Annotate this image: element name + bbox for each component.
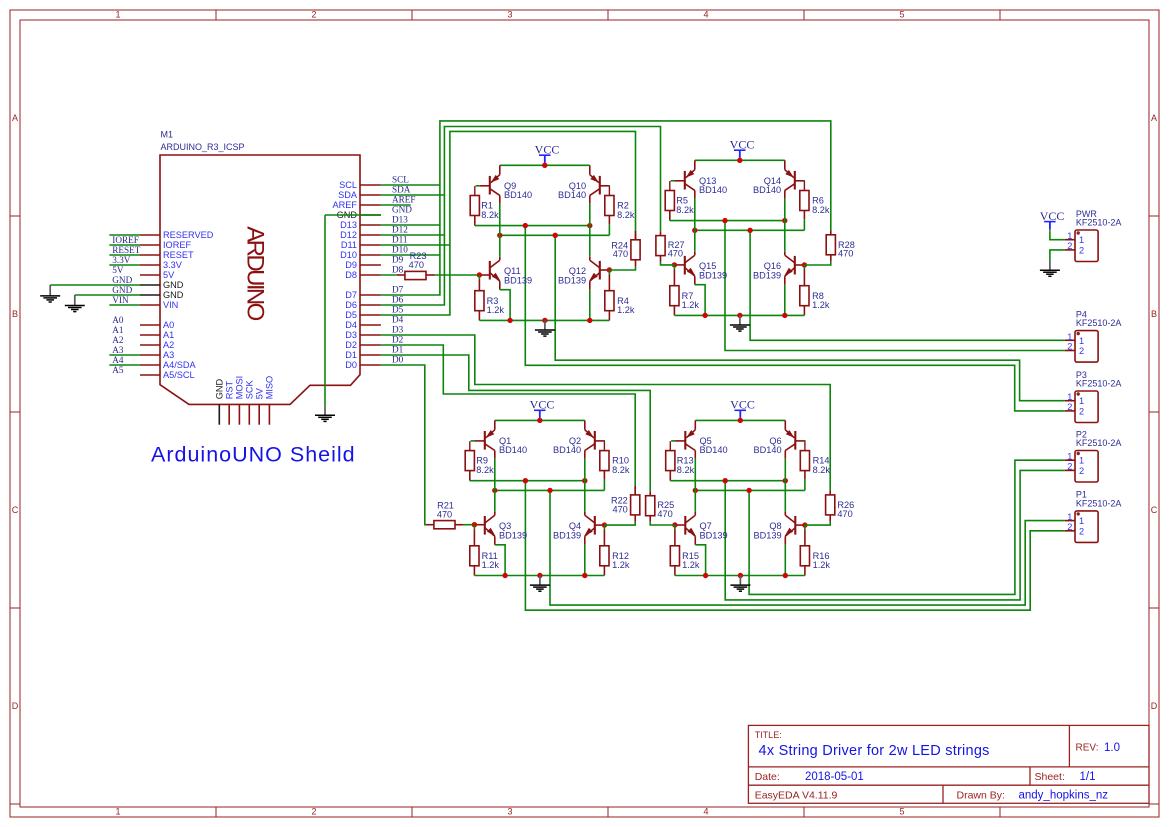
svg-text:R1: R1 [481,201,493,211]
svg-text:GND: GND [112,275,132,285]
svg-text:A4/SDA: A4/SDA [163,360,197,370]
svg-text:B: B [1151,309,1157,319]
svg-text:2: 2 [1067,462,1072,472]
svg-text:A3: A3 [112,345,124,355]
svg-text:1: 1 [1067,392,1072,402]
svg-text:8.2k: 8.2k [476,465,494,475]
svg-text:Q16: Q16 [764,261,781,271]
svg-text:KF2510-2A: KF2510-2A [1076,318,1122,328]
svg-text:BD139: BD139 [754,531,782,541]
svg-text:Drawn By:: Drawn By: [957,790,1005,802]
svg-text:IOREF: IOREF [112,235,139,245]
svg-text:3.3V: 3.3V [112,255,130,265]
svg-text:1: 1 [115,10,120,20]
svg-text:BD140: BD140 [754,445,782,455]
svg-text:5V: 5V [254,387,264,399]
svg-text:BD139: BD139 [504,276,532,286]
svg-text:3: 3 [507,10,512,20]
svg-text:BD139: BD139 [699,271,727,281]
svg-text:3: 3 [507,807,512,817]
svg-text:D5: D5 [392,305,404,315]
svg-text:D3: D3 [345,330,357,340]
svg-text:D2: D2 [392,335,404,345]
svg-text:470: 470 [837,509,852,519]
svg-text:5V: 5V [112,265,124,275]
svg-text:GND: GND [392,205,412,215]
svg-text:Q15: Q15 [699,261,716,271]
svg-text:D11: D11 [341,240,357,250]
svg-text:RST: RST [224,381,234,400]
svg-text:1.2k: 1.2k [682,300,700,310]
svg-text:1: 1 [1067,332,1072,342]
svg-text:D7: D7 [392,285,404,295]
svg-text:A5: A5 [112,365,124,375]
svg-text:2: 2 [1079,406,1084,416]
svg-text:VIN: VIN [112,295,129,305]
svg-text:Q3: Q3 [499,521,511,531]
svg-text:2018-05-01: 2018-05-01 [805,771,864,783]
svg-text:470: 470 [657,509,672,519]
svg-text:D0: D0 [345,360,357,370]
svg-text:D12: D12 [392,225,408,235]
svg-text:ARDUINO_R3_ICSP: ARDUINO_R3_ICSP [161,142,245,152]
svg-text:D: D [1151,701,1158,711]
svg-text:SDA: SDA [392,185,411,195]
svg-text:1.2k: 1.2k [487,305,505,315]
svg-text:ARDUINO: ARDUINO [242,226,269,320]
svg-text:KF2510-2A: KF2510-2A [1076,218,1122,228]
svg-text:AREF: AREF [392,195,416,205]
svg-text:B: B [12,309,18,319]
svg-text:SCK: SCK [245,380,255,400]
svg-text:A3: A3 [163,350,174,360]
svg-text:M1: M1 [161,130,174,140]
svg-text:470: 470 [409,260,424,270]
svg-text:R10: R10 [612,456,629,466]
svg-text:R14: R14 [813,456,830,466]
svg-text:470: 470 [612,504,627,514]
svg-text:BD140: BD140 [700,445,728,455]
svg-text:RESET: RESET [163,250,194,260]
svg-text:EasyEDA V4.11.9: EasyEDA V4.11.9 [755,790,838,802]
svg-text:R2: R2 [617,201,629,211]
svg-text:4x String Driver for 2w LED st: 4x String Driver for 2w LED strings [759,743,990,759]
svg-text:1/1: 1/1 [1080,771,1096,783]
svg-text:1: 1 [115,807,120,817]
svg-text:8.2k: 8.2k [617,210,635,220]
svg-text:BD140: BD140 [753,185,781,195]
svg-text:C: C [12,505,19,515]
svg-text:MOSI: MOSI [235,376,245,399]
svg-text:5: 5 [899,10,904,20]
svg-text:D9: D9 [392,255,404,265]
svg-text:D12: D12 [340,230,357,240]
svg-text:KF2510-2A: KF2510-2A [1076,438,1122,448]
svg-text:4: 4 [703,807,708,817]
svg-text:1: 1 [1079,396,1084,406]
svg-text:5V: 5V [163,270,175,280]
svg-text:470: 470 [613,249,628,259]
svg-text:andy_hopkins_nz: andy_hopkins_nz [1019,790,1109,802]
svg-text:2: 2 [1079,466,1084,476]
svg-text:KF2510-2A: KF2510-2A [1076,379,1122,389]
svg-text:D7: D7 [345,290,357,300]
svg-text:GND: GND [163,280,184,290]
svg-text:RESET: RESET [112,245,140,255]
svg-text:2: 2 [1079,245,1084,255]
svg-text:D5: D5 [345,310,357,320]
svg-text:REV:: REV: [1076,743,1099,754]
svg-text:1: 1 [1079,235,1084,245]
svg-text:2: 2 [1079,346,1084,356]
svg-text:8.2k: 8.2k [813,465,831,475]
svg-text:D6: D6 [392,295,404,305]
svg-text:R5: R5 [676,196,688,206]
svg-text:R6: R6 [812,196,824,206]
svg-text:2: 2 [1067,522,1072,532]
svg-text:2: 2 [1079,526,1084,536]
svg-text:1: 1 [1067,231,1072,241]
svg-text:RESERVED: RESERVED [163,230,214,240]
svg-text:D8: D8 [345,270,357,280]
svg-text:1.2k: 1.2k [682,560,700,570]
svg-text:GND: GND [112,285,132,295]
svg-text:470: 470 [437,510,452,520]
svg-text:BD140: BD140 [553,445,581,455]
svg-text:SDA: SDA [338,190,358,200]
svg-text:D10: D10 [392,245,408,255]
svg-text:1.0: 1.0 [1104,742,1120,754]
svg-text:D3: D3 [392,325,404,335]
svg-text:4: 4 [703,10,708,20]
svg-text:Q7: Q7 [700,521,712,531]
svg-text:Q12: Q12 [569,266,586,276]
svg-text:A2: A2 [163,340,174,350]
svg-text:BD140: BD140 [558,190,586,200]
svg-text:BD139: BD139 [700,531,728,541]
svg-text:BD139: BD139 [558,276,586,286]
svg-text:TITLE:: TITLE: [755,730,782,740]
svg-text:A0: A0 [163,320,174,330]
svg-text:2: 2 [311,10,316,20]
svg-text:GND: GND [215,379,225,400]
svg-text:2: 2 [311,807,316,817]
svg-text:Sheet:: Sheet: [1035,771,1065,783]
svg-text:D13: D13 [340,220,357,230]
svg-text:2: 2 [1067,342,1072,352]
svg-text:D6: D6 [345,300,357,310]
svg-text:8.2k: 8.2k [812,205,830,215]
svg-text:1: 1 [1079,336,1084,346]
svg-text:A0: A0 [112,315,124,325]
svg-text:2: 2 [1067,402,1072,412]
svg-text:1: 1 [1079,516,1084,526]
svg-text:8.2k: 8.2k [612,465,630,475]
svg-text:MISO: MISO [265,376,275,399]
svg-text:VIN: VIN [163,300,178,310]
svg-text:BD140: BD140 [499,445,527,455]
svg-text:1.2k: 1.2k [612,560,630,570]
svg-text:A1: A1 [112,325,124,335]
svg-text:1.2k: 1.2k [482,560,500,570]
svg-text:Q8: Q8 [769,521,781,531]
svg-text:BD139: BD139 [753,271,781,281]
svg-text:Q11: Q11 [504,266,521,276]
svg-text:8.2k: 8.2k [481,210,499,220]
svg-text:R9: R9 [476,456,488,466]
svg-text:A2: A2 [112,335,124,345]
svg-text:D0: D0 [392,355,404,365]
svg-text:3.3V: 3.3V [163,260,183,270]
svg-text:BD139: BD139 [499,531,527,541]
svg-text:1: 1 [1067,452,1072,462]
svg-text:A4: A4 [112,355,124,365]
svg-text:ArduinoUNO Sheild: ArduinoUNO Sheild [151,443,356,467]
svg-text:D: D [12,701,19,711]
svg-text:D4: D4 [392,315,404,325]
svg-text:8.2k: 8.2k [677,465,695,475]
svg-text:Date:: Date: [755,771,780,783]
svg-text:2: 2 [1067,241,1072,251]
svg-text:AREF: AREF [332,200,357,210]
svg-text:D10: D10 [340,250,357,260]
svg-text:R13: R13 [677,456,694,466]
svg-text:8.2k: 8.2k [676,205,694,215]
svg-text:IOREF: IOREF [163,240,191,250]
svg-text:470: 470 [838,249,853,259]
svg-text:D13: D13 [392,215,408,225]
svg-text:A: A [12,113,18,123]
svg-text:D1: D1 [345,350,357,360]
svg-text:A5/SCL: A5/SCL [163,370,195,380]
svg-text:BD139: BD139 [553,531,581,541]
svg-text:SCL: SCL [339,180,357,190]
svg-text:1.2k: 1.2k [617,305,635,315]
svg-text:1: 1 [1067,512,1072,522]
svg-text:Q4: Q4 [569,521,581,531]
svg-text:BD140: BD140 [504,190,532,200]
svg-text:VCC: VCC [1040,209,1065,223]
svg-text:KF2510-2A: KF2510-2A [1076,498,1122,508]
svg-text:D2: D2 [345,340,357,350]
svg-text:470: 470 [668,249,683,259]
svg-text:D4: D4 [345,320,357,330]
svg-text:C: C [1151,505,1158,515]
svg-text:A1: A1 [163,330,174,340]
svg-text:1.2k: 1.2k [812,300,830,310]
svg-text:1.2k: 1.2k [813,560,831,570]
svg-text:D11: D11 [392,235,408,245]
svg-text:D1: D1 [392,345,404,355]
svg-text:D9: D9 [345,260,357,270]
svg-text:5: 5 [899,807,904,817]
svg-text:D8: D8 [392,265,404,275]
svg-text:SCL: SCL [392,175,409,185]
svg-text:BD140: BD140 [699,185,727,195]
svg-text:1: 1 [1079,456,1084,466]
svg-text:A: A [1151,113,1157,123]
svg-text:GND: GND [163,290,184,300]
